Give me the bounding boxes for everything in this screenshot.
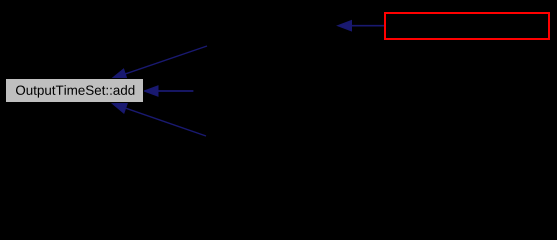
wire: edge from hidden bottom caller into OutputTimeSet::add (diagonal)	[112, 103, 206, 136]
wire: edge from hidden middle caller into OutputTimeSet::add (horizontal)	[144, 86, 193, 96]
wire: edge from hidden top caller into OutputTimeSet::add (diagonal)	[112, 46, 207, 79]
node OutputTimeSet::add (current node, grey filled)	[6, 79, 144, 103]
wire: edge from red node to hidden caller node (horizontal, top)	[338, 21, 385, 31]
node: red highlighted caller box (top right)	[385, 13, 549, 39]
